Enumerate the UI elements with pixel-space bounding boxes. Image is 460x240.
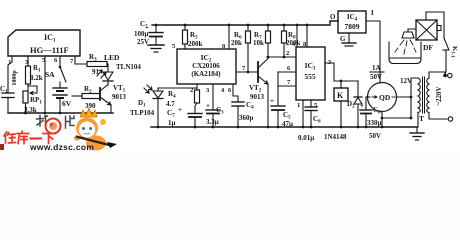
pin 6 label IC2 [228, 87, 232, 94]
svg-text:50V: 50V [370, 73, 382, 81]
value label D1 [130, 99, 155, 117]
pin 1 label IC1 [8, 59, 11, 66]
wire IC2 pin8 to rail [228, 25, 230, 49]
value label QD [372, 96, 395, 98]
value label C7 [167, 106, 182, 127]
pin 1 label IC3 [297, 102, 300, 109]
wire primary top to mains [429, 72, 447, 78]
value label R4 [166, 90, 176, 108]
value label C3 [206, 102, 224, 126]
svg-text:9013: 9013 [112, 93, 127, 101]
wire pin6-pin7 junction to C5 [277, 72, 279, 106]
value label R5 [188, 31, 203, 48]
wire IC4 input from rectifier [366, 21, 380, 83]
wire D1 top to R4/pin2 node [158, 84, 197, 88]
value label R7 [253, 31, 264, 47]
pin 4 of IC3 to rail [296, 25, 298, 47]
wash basin [389, 42, 421, 64]
capacitor C3 3.3u on IC2 pin3 [206, 84, 220, 127]
op-amp U1 : IC1 HG-111F box [8, 30, 80, 56]
value label IC3 [304, 61, 316, 81]
svg-text:QD: QD [379, 93, 391, 102]
svg-text:8.2k: 8.2k [30, 74, 43, 82]
svg-text:LED: LED [104, 53, 120, 62]
capacitor C7 1u [188, 114, 202, 128]
pin O label IC4 [330, 13, 336, 21]
wire IC3 pin7 [278, 85, 296, 87]
transformer T [418, 77, 429, 113]
svg-text:100μ: 100μ [134, 30, 149, 38]
value label R6 [231, 31, 242, 47]
wire IC3 pin1 to ground rail [302, 100, 304, 127]
wire R1 to RP1 [26, 84, 29, 91]
value label 12V [400, 77, 412, 85]
svg-text:555: 555 [304, 72, 316, 81]
value label C4 [239, 101, 254, 122]
svg-text:TLN104: TLN104 [116, 63, 141, 71]
capacitor C5 47u [271, 106, 285, 127]
pin 8 label IC3 [303, 41, 307, 48]
svg-text:0.01μ: 0.01μ [298, 134, 314, 142]
svg-text:200k: 200k [188, 40, 203, 48]
relay K coil [334, 81, 348, 127]
capacitor C2 100u 25V [149, 25, 163, 44]
wire receiver ground rail [151, 117, 417, 129]
resistor R4 4.7 [195, 88, 200, 113]
svg-text:I: I [371, 9, 374, 17]
transistor VT1 9013 [100, 85, 111, 114]
wire secondary bottom to ground rail [417, 113, 419, 128]
photodiode D1 TLP104 [144, 85, 163, 127]
watermark red text weiku [4, 132, 55, 144]
wire DF to switch K1-1 [426, 12, 444, 38]
wire pin5 down to ground rail [44, 56, 46, 113]
svg-text:1N4148: 1N4148 [324, 133, 347, 141]
wire IC3 pin6 [278, 71, 296, 73]
svg-text:HG—111F: HG—111F [30, 45, 69, 55]
value label ~220V [435, 86, 443, 105]
ground symbol at IC4 [342, 33, 356, 46]
switch SA [59, 56, 66, 82]
pin 3 label IC1 [25, 59, 29, 66]
wire pin7 to R3 [75, 56, 87, 64]
value label LED TLN104 [103, 53, 141, 71]
value label D2 [324, 100, 355, 141]
svg-text:1000p: 1000p [12, 70, 18, 86]
resistor R8 200k [282, 25, 287, 58]
hand dryer nozzle arm [408, 29, 416, 32]
value label 6V [62, 99, 72, 108]
resistor R7 10k [266, 25, 271, 57]
fan motor DF box [416, 20, 441, 40]
svg-text:~220V: ~220V [435, 86, 443, 105]
svg-text:www.dzsc.com: www.dzsc.com [29, 142, 94, 151]
resistor R3 91 [87, 62, 107, 67]
pin 7 label IC2 right side [242, 65, 246, 72]
svg-text:1: 1 [297, 102, 300, 109]
svg-text:G: G [340, 35, 346, 43]
watermark badge logo [46, 119, 61, 134]
svg-text:6V: 6V [62, 99, 72, 108]
terminal mains top [445, 73, 452, 77]
svg-text:330μ: 330μ [367, 119, 382, 127]
svg-text:390: 390 [85, 102, 96, 110]
value label T [419, 114, 424, 123]
pin 6 label IC1 [54, 57, 58, 64]
svg-text:(KA2184): (KA2184) [191, 70, 221, 78]
pin 3 label IC2 [206, 87, 210, 94]
svg-text:4.7: 4.7 [166, 100, 175, 108]
value label DF [423, 43, 433, 52]
wire R3 to LED [107, 63, 108, 65]
pin 5 label IC2 [172, 43, 176, 50]
svg-text:20k: 20k [231, 39, 242, 47]
value label K [337, 91, 344, 100]
svg-text:25V: 25V [137, 38, 149, 46]
value label C1 [0, 70, 18, 95]
wire transmitter ground rail [8, 112, 113, 115]
value label R8 [286, 31, 301, 47]
ground symbol at rail end [410, 127, 424, 140]
svg-text:50V: 50V [369, 132, 381, 140]
value label IC4 [345, 13, 360, 31]
value label C2 [134, 20, 149, 46]
bridge rectifier QD [366, 83, 412, 128]
watermark url text [29, 142, 94, 152]
pin 2 label IC3 [286, 50, 289, 57]
wire secondary top 12V [411, 78, 418, 97]
pin I label IC4 [371, 9, 374, 17]
wire IC3 pin3 output [325, 63, 358, 82]
svg-text:2: 2 [286, 50, 289, 57]
value label R1 [30, 64, 43, 82]
pin 6 label IC3 [287, 65, 291, 72]
svg-text:7809: 7809 [345, 22, 360, 31]
value label R2 [84, 85, 96, 110]
value label VT2 [249, 84, 265, 101]
svg-text:CX20106: CX20106 [192, 62, 220, 70]
svg-text:TLP104: TLP104 [130, 109, 155, 117]
value label C5 [270, 97, 293, 128]
terminal mains bottom [448, 117, 452, 121]
resistor R1 8.2k [26, 66, 31, 84]
value label K1-1 [450, 46, 459, 58]
svg-text:1A: 1A [372, 64, 381, 72]
capacitor C6 0.01u on IC3 pin5 [305, 100, 317, 127]
value label C6 [298, 115, 321, 142]
air spray dashes [395, 40, 416, 54]
pin G label IC4 [340, 35, 346, 43]
svg-text:10k: 10k [253, 39, 264, 47]
wire pin1 to C1 [8, 56, 12, 93]
wire IC2 pin7 to VT2 base [236, 71, 258, 73]
transistor VT2 9013 [258, 59, 268, 128]
svg-text:9013: 9013 [250, 93, 265, 101]
pin 2 label IC2 [190, 87, 193, 94]
diode D2 1N4148 [354, 81, 362, 127]
pin 8 label IC2 [222, 43, 226, 50]
watermark corner fragment [0, 144, 4, 150]
potentiometer RP1 3.3k [23, 86, 37, 103]
value label IC1 [30, 33, 69, 55]
pin 4 label IC3 [292, 41, 296, 48]
svg-text:+: + [360, 102, 364, 110]
switch contact K1-1 [443, 38, 449, 76]
value label IC2 [191, 53, 221, 78]
svg-text:O: O [330, 13, 336, 21]
pin 5 label IC1 [42, 57, 46, 64]
svg-text:360p: 360p [239, 114, 254, 122]
value label SA [45, 70, 55, 79]
value label R3 [89, 53, 100, 76]
pin 3 label IC3 [328, 59, 332, 66]
svg-text:+: + [206, 102, 210, 110]
capacitor C8 330u 50V [360, 97, 372, 127]
pin 8 of IC3 to rail [306, 25, 308, 47]
value label RP1 [24, 96, 42, 114]
resistor R6 20k [246, 25, 251, 73]
value label C8 [360, 102, 382, 140]
LED TLN104 [97, 64, 113, 85]
pin 5 label IC3 [314, 102, 318, 109]
pin 7 label IC3 [287, 79, 291, 86]
wire C1 to ground rail [7, 98, 9, 114]
node VT2 collector / 555 trigger [267, 56, 296, 59]
resistor R2 390 [72, 94, 100, 99]
svg-text:1μ: 1μ [168, 119, 176, 127]
regulator IC4 7809 box [338, 11, 366, 33]
hand dryer nozzle head [402, 32, 414, 38]
watermark mascot [74, 108, 117, 151]
svg-text:+: + [178, 106, 182, 114]
svg-text:12V: 12V [400, 77, 412, 85]
ground symbol at C2 [148, 45, 164, 52]
svg-text:+: + [270, 97, 274, 105]
value label VT1 [112, 84, 127, 101]
svg-text:3.3μ: 3.3μ [206, 118, 219, 126]
pin 7 label IC1 [70, 58, 74, 65]
capacitor C1 1000p [2, 93, 14, 98]
pin 4 label IC2 [221, 87, 225, 94]
watermark gray text [37, 116, 75, 129]
wire RP1 to ground rail [25, 103, 27, 113]
svg-text:T: T [419, 114, 424, 123]
svg-text:K: K [337, 91, 344, 100]
battery GB 6V [53, 82, 67, 113]
resistor R5 200k [183, 25, 188, 49]
capacitor C4 360p on IC2 pin6 [232, 84, 244, 127]
op-amp U2 : IC2 CX20106 box [177, 49, 236, 84]
wire primary bottom to mains [429, 113, 448, 120]
svg-text:SA: SA [45, 70, 55, 79]
timer U3 : IC3 555 box [296, 47, 325, 100]
wire top +9V rail [152, 21, 338, 26]
svg-text:DF: DF [423, 43, 433, 52]
fuse label 1A 50V [370, 64, 382, 81]
wire pin3 to R1 [27, 56, 29, 66]
